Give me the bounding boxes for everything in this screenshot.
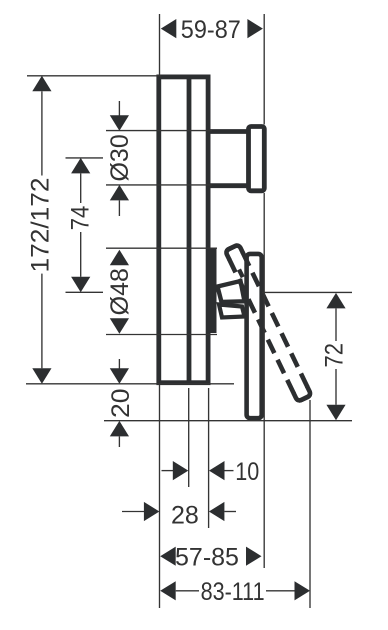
hub foot <box>219 305 245 318</box>
arrow 72 bottom <box>326 405 345 421</box>
svg-text:10: 10 <box>235 458 259 486</box>
arrow 172/172 top <box>32 76 51 92</box>
ext inner down <box>188 388 190 487</box>
ext wall-line down <box>159 385 161 608</box>
svg-text:20: 20 <box>107 389 135 419</box>
spout pipe bottom <box>209 183 249 188</box>
dimension O30 <box>106 101 134 216</box>
ext 59-87 left <box>159 14 161 77</box>
arrow 28 left <box>144 502 160 521</box>
cartridge sleeve bump <box>211 248 217 334</box>
arrow 20 bottom <box>110 421 129 437</box>
pipe end cap <box>249 127 265 191</box>
arrow 57-85 left <box>160 547 176 566</box>
dimension 10 <box>162 458 260 486</box>
arrow 74 top <box>71 158 90 174</box>
arrow 172/172 bottom <box>32 368 51 384</box>
spout pipe top <box>209 129 249 134</box>
dim tail 28 left <box>122 511 144 513</box>
dim tail O30 bottom <box>118 200 120 216</box>
dimension 59-87 <box>161 16 263 44</box>
thin construction/extension lines <box>26 14 352 608</box>
arrow 57-85 right <box>246 547 262 566</box>
O48 ext bottom <box>106 334 217 336</box>
dimension 72 <box>321 293 349 420</box>
dimension 28 <box>122 502 236 530</box>
arrow 74 bottom <box>71 277 90 293</box>
lever handle dashed (open position) <box>225 244 311 401</box>
hub dash fragment <box>239 270 243 278</box>
svg-text:57-85: 57-85 <box>175 544 239 572</box>
arrow O48 top <box>110 250 129 266</box>
O48 ext top <box>106 247 217 249</box>
ext 59-87/57-85 right <box>263 14 265 125</box>
dimension 83-111 <box>160 578 310 606</box>
dim line 72 <box>335 308 337 341</box>
arrow 59-87 right <box>247 19 263 38</box>
handle hub <box>218 281 245 302</box>
arrow 28 right <box>209 502 225 521</box>
tick 172 top <box>27 75 161 77</box>
dashed lever top end cap <box>225 244 243 259</box>
arrow 59-87 left <box>161 19 177 38</box>
arrow 72 top <box>326 293 345 309</box>
ext handle tip down <box>309 400 311 608</box>
svg-text:28: 28 <box>171 502 199 530</box>
svg-text:72: 72 <box>321 343 349 368</box>
lever handle solid <box>247 254 262 418</box>
dim tail 10 left <box>162 470 174 472</box>
tick 74 top <box>66 157 104 159</box>
wall line <box>26 383 234 385</box>
dimension 20 <box>107 359 135 447</box>
svg-text:Ø48: Ø48 <box>106 268 134 315</box>
dim line 172/172 <box>41 91 43 175</box>
dimension 57-85 <box>160 544 261 572</box>
arrow 10 left <box>173 461 189 480</box>
72 top line <box>262 291 352 293</box>
ext plate right down <box>208 388 210 528</box>
arrow O48 bottom <box>110 318 129 334</box>
dim line 83-111 left <box>176 590 199 592</box>
dim line 83-111 right <box>266 590 295 592</box>
svg-text:74: 74 <box>67 206 95 231</box>
arrow 20 top <box>110 368 129 384</box>
handle bottom line <box>104 420 352 422</box>
plate inner line <box>187 75 192 385</box>
svg-text:59-87: 59-87 <box>181 16 241 44</box>
svg-text:83-111: 83-111 <box>201 578 265 606</box>
arrow O30 top <box>110 115 129 131</box>
dim tail 28 right <box>224 511 236 513</box>
dim tail 20 bottom <box>118 436 120 447</box>
dashed lever bottom end cap <box>293 386 311 401</box>
dim tail O30 top <box>118 101 120 116</box>
dimension 74 <box>67 158 95 292</box>
svg-text:Ø30: Ø30 <box>106 134 134 181</box>
dim line 74 <box>80 173 82 203</box>
dimension O48 <box>106 250 134 334</box>
valve body plate <box>159 77 208 383</box>
dim tail 20 top <box>118 359 120 369</box>
O30 ext top <box>106 130 212 132</box>
dimension 172/172 <box>27 76 55 384</box>
tick 74 bottom <box>66 291 104 293</box>
O30 ext bottom <box>106 184 212 186</box>
arrow O30 bottom <box>110 185 129 201</box>
svg-text:172/172: 172/172 <box>27 178 55 273</box>
